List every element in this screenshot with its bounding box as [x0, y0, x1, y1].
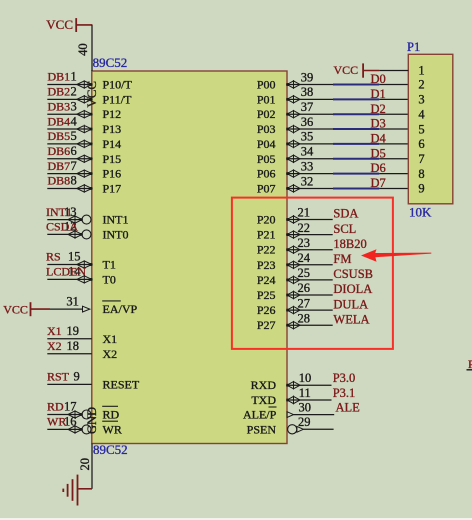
svg-text:P: P: [468, 357, 472, 371]
pin name P20: [257, 213, 276, 227]
pin name P14: [103, 137, 122, 151]
partial net label at right edge: [467, 357, 472, 371]
pin name ALE/P with overline: [243, 407, 277, 422]
svg-text:26: 26: [298, 281, 311, 295]
connector pin number 5: [418, 122, 424, 136]
svg-text:P24: P24: [257, 273, 276, 287]
pin wire P25: [287, 294, 333, 296]
pin marker P14: [77, 140, 93, 147]
connector P1 body: [408, 54, 453, 204]
power port VCC (top): [46, 17, 92, 32]
ground symbol: [63, 475, 92, 506]
connector pin wire D7: [379, 187, 408, 189]
pin number 27: [298, 296, 311, 310]
svg-text:D7: D7: [371, 176, 386, 190]
pin name INT1: [103, 213, 129, 227]
pin name PSEN: [247, 422, 277, 436]
pin name RXD: [251, 378, 277, 392]
svg-text:P1: P1: [407, 40, 420, 54]
pin name P04: [257, 137, 276, 151]
net label SDA: [333, 207, 358, 221]
svg-text:22: 22: [298, 221, 311, 235]
wire net X2 to pin 18: [47, 353, 92, 355]
wire net X1 to pin 19: [47, 338, 92, 340]
pin wire P05: [287, 158, 333, 160]
svg-text:P22: P22: [257, 243, 276, 257]
svg-text:DB5: DB5: [48, 129, 71, 143]
pin number 29: [298, 415, 311, 429]
bottom screenshot border strip: [0, 518, 472, 520]
svg-text:X2: X2: [103, 347, 118, 361]
IC U1 89C52 body: [92, 71, 287, 444]
svg-text:24: 24: [298, 251, 311, 265]
svg-text:4: 4: [418, 107, 425, 121]
pin number 35: [301, 130, 314, 144]
svg-text:31: 31: [66, 295, 79, 309]
svg-text:29: 29: [298, 415, 311, 429]
net label DB6: [48, 144, 71, 158]
svg-text:X1: X1: [47, 324, 62, 338]
svg-text:P21: P21: [257, 228, 276, 242]
pin name P05: [257, 152, 276, 166]
svg-text:DIOLA: DIOLA: [333, 282, 372, 296]
svg-text:3: 3: [418, 93, 424, 107]
svg-text:10K: 10K: [409, 204, 432, 219]
pin number 28: [298, 311, 311, 325]
pin wire RXD: [287, 384, 332, 386]
net label CSDA: [46, 220, 78, 234]
svg-text:P3.0: P3.0: [333, 371, 356, 385]
net label RS: [46, 250, 61, 264]
svg-text:X1: X1: [103, 332, 118, 346]
svg-text:LCDEN: LCDEN: [46, 265, 86, 279]
pin number 38: [301, 85, 314, 99]
pin wire P02: [287, 113, 333, 115]
pin number 10: [299, 371, 312, 385]
svg-text:18B20: 18B20: [333, 237, 366, 251]
wire net DB7 to pin 7: [47, 173, 92, 175]
svg-text:D2: D2: [371, 102, 386, 116]
pin marker WR with bubble: [68, 425, 91, 434]
svg-text:ALE: ALE: [336, 401, 361, 415]
svg-text:6: 6: [71, 144, 77, 158]
net label DB2: [48, 85, 71, 99]
wire net RS to pin 15: [47, 264, 92, 266]
net label D7: [371, 176, 386, 190]
pin marker P10/T: [77, 81, 93, 88]
pin name P16: [103, 167, 122, 181]
svg-text:DB8: DB8: [48, 174, 71, 188]
svg-text:P14: P14: [103, 137, 122, 151]
pin marker P03: [286, 125, 300, 132]
pin marker P07: [286, 185, 300, 192]
pin number 31: [66, 295, 79, 309]
pin number 3: [71, 99, 77, 113]
connector pin number 2: [418, 78, 424, 92]
svg-text:VCC: VCC: [334, 63, 359, 77]
pin number 16: [64, 415, 77, 429]
net label D0: [371, 72, 386, 86]
pin marker P12: [77, 111, 93, 118]
svg-text:DB6: DB6: [48, 144, 71, 158]
svg-text:39: 39: [301, 70, 314, 84]
svg-text:28: 28: [298, 311, 311, 325]
svg-text:P10/T: P10/T: [103, 78, 133, 92]
net label GND (rotated): [85, 407, 99, 434]
svg-text:89C52: 89C52: [93, 442, 128, 457]
net label D1: [371, 87, 386, 101]
pin marker RXD: [286, 382, 300, 389]
wire net INT1 to pin 13: [47, 219, 82, 221]
pin wire ALE: [294, 414, 335, 416]
pin name RESET: [103, 377, 140, 391]
pin marker P24: [286, 276, 300, 283]
connector pin number 7: [418, 152, 424, 166]
svg-text:GND: GND: [85, 407, 99, 434]
wire pin 20 to ground: [91, 444, 93, 489]
pin marker INT1 with bubble: [68, 215, 91, 224]
highlight arrow pointing to FM: [361, 249, 431, 261]
pin marker P11/T: [77, 96, 93, 103]
pin marker P04: [286, 140, 300, 147]
connector pin wire D0: [379, 84, 408, 86]
pin name P22: [257, 243, 276, 257]
svg-text:P00: P00: [257, 78, 276, 92]
wire net DB3 to pin 3: [47, 113, 92, 115]
svg-text:T0: T0: [103, 272, 116, 286]
connector pin number 4: [418, 107, 425, 121]
svg-text:P13: P13: [103, 122, 122, 136]
wire net D0: [333, 84, 379, 86]
pin wire P07: [287, 187, 333, 189]
svg-text:DB2: DB2: [48, 85, 71, 99]
svg-text:RESET: RESET: [103, 377, 140, 391]
svg-text:21: 21: [298, 206, 311, 220]
svg-text:FM: FM: [333, 252, 351, 266]
svg-text:RXD: RXD: [251, 378, 277, 392]
svg-text:89C52: 89C52: [93, 55, 128, 70]
pin number 4: [71, 114, 78, 128]
designator P1: [407, 40, 420, 54]
net label DB7: [48, 159, 71, 173]
pin wire P21: [287, 234, 333, 236]
wire net D6: [333, 173, 379, 175]
pin name P25: [257, 288, 276, 302]
pin number 39: [301, 70, 314, 84]
pin name X2: [103, 347, 118, 361]
net label DB1: [48, 70, 71, 84]
pin number 36: [301, 115, 314, 129]
wire net D1: [333, 98, 379, 100]
svg-text:6: 6: [418, 137, 424, 151]
svg-text:20: 20: [78, 458, 92, 471]
net label P3.1: [333, 386, 356, 400]
net label RD: [47, 400, 64, 414]
svg-text:RST: RST: [47, 370, 70, 384]
pin marker P23: [286, 261, 300, 268]
pin number 34: [301, 145, 314, 159]
svg-text:D0: D0: [371, 72, 386, 86]
svg-text:10: 10: [299, 371, 312, 385]
pin number 18: [67, 339, 80, 353]
svg-text:TXD: TXD: [251, 393, 276, 407]
pin marker P06: [286, 170, 300, 177]
pin number 40 (rotated): [76, 43, 90, 56]
svg-text:P05: P05: [257, 152, 276, 166]
pin name P23: [257, 258, 276, 272]
svg-text:P03: P03: [257, 122, 276, 136]
designator 89C52 (bottom): [93, 442, 128, 457]
connector pin wire D1: [379, 98, 408, 100]
svg-text:7: 7: [71, 159, 77, 173]
svg-text:23: 23: [298, 236, 311, 250]
wire VCC to pin 40: [91, 25, 93, 71]
svg-text:34: 34: [301, 145, 314, 159]
svg-text:5: 5: [418, 122, 424, 136]
pin number 12: [64, 220, 77, 234]
connector pin number 9: [418, 182, 424, 196]
net label WELA: [333, 312, 369, 326]
pin wire P23: [287, 264, 333, 266]
net label LCDEN: [46, 265, 86, 279]
wire net D7: [333, 187, 379, 189]
svg-text:EA/VP: EA/VP: [103, 302, 138, 316]
wire net WR to pin 16: [47, 428, 82, 430]
pin marker RD with bubble: [68, 410, 91, 419]
pin name X1: [103, 332, 118, 346]
pin name RD with overline: [102, 406, 119, 421]
pin name P27: [257, 318, 276, 332]
pin name TXD: [251, 393, 276, 407]
pin number 23: [298, 236, 311, 250]
pin name P10/T: [103, 78, 133, 92]
pin wire P26: [287, 309, 333, 311]
pin marker TXD: [286, 396, 300, 403]
net label 18B20: [333, 237, 366, 251]
svg-text:9: 9: [74, 370, 80, 384]
svg-text:1: 1: [418, 64, 424, 78]
svg-text:36: 36: [301, 115, 314, 129]
net label D6: [371, 161, 386, 175]
svg-text:X2: X2: [47, 339, 62, 353]
pin name P07: [257, 181, 276, 195]
wire net DB4 to pin 4: [47, 128, 92, 130]
svg-text:P07: P07: [257, 181, 276, 195]
pin name P17: [103, 181, 122, 195]
wire net RD to pin 17: [47, 414, 82, 416]
pin wire P06: [287, 173, 333, 175]
connector pin wire D3: [379, 128, 408, 130]
pin wire P22: [287, 249, 333, 251]
pin name P11/T: [103, 92, 133, 106]
net label DIOLA: [333, 282, 372, 296]
pin marker P21: [286, 231, 300, 238]
pin name P12: [103, 107, 122, 121]
wire net D5: [333, 158, 379, 160]
pin number 1: [71, 70, 77, 84]
pin name P15: [103, 152, 122, 166]
pin marker P16: [77, 170, 93, 177]
net label P3.0: [333, 371, 356, 385]
pin number 11: [299, 386, 311, 400]
pin marker P27: [286, 322, 300, 329]
pin wire PSEN: [303, 428, 333, 430]
svg-text:WR: WR: [103, 422, 122, 436]
net label INT1: [46, 205, 72, 219]
wire net DB1 to pin 1: [47, 84, 92, 86]
svg-text:18: 18: [67, 339, 80, 353]
svg-text:8: 8: [418, 167, 424, 181]
pin number 20 (rotated): [78, 458, 92, 471]
svg-text:P15: P15: [103, 152, 122, 166]
svg-text:INT1: INT1: [103, 213, 129, 227]
pin marker EA/VP input triangle: [83, 306, 90, 312]
wire VCC to P1 pin 1: [379, 70, 408, 72]
svg-text:P06: P06: [257, 167, 276, 181]
svg-text:RS: RS: [46, 250, 61, 264]
svg-text:19: 19: [67, 324, 80, 338]
svg-text:1: 1: [71, 70, 77, 84]
svg-text:INT1: INT1: [46, 205, 72, 219]
svg-text:P26: P26: [257, 303, 276, 317]
pin name EA/VP with overline: [102, 301, 137, 316]
pin number 22: [298, 221, 311, 235]
pin wire P00: [287, 84, 333, 86]
net label ALE: [336, 401, 361, 415]
svg-text:SDA: SDA: [333, 207, 358, 221]
svg-text:P12: P12: [103, 107, 122, 121]
pin number 14: [68, 265, 81, 279]
svg-text:PSEN: PSEN: [247, 422, 277, 436]
power port VCC (P1 pin 1): [334, 63, 380, 78]
svg-text:8: 8: [71, 174, 77, 188]
pin marker P22: [286, 246, 300, 253]
svg-text:25: 25: [298, 266, 311, 280]
pin number 24: [298, 251, 311, 265]
pin number 26: [298, 281, 311, 295]
highlight box (red): [232, 198, 393, 349]
pin name T1: [103, 258, 116, 272]
svg-text:D4: D4: [371, 132, 387, 146]
svg-text:DB7: DB7: [48, 159, 71, 173]
pin wire P20: [287, 219, 333, 221]
svg-text:35: 35: [301, 130, 314, 144]
svg-text:D3: D3: [371, 117, 386, 131]
pin number 33: [301, 159, 314, 173]
pin name P00: [257, 78, 276, 92]
pin number 25: [298, 266, 311, 280]
net label X2: [47, 339, 62, 353]
pin marker INT0 with bubble: [68, 230, 91, 239]
net label DULA: [333, 297, 368, 311]
pin number 17: [64, 400, 77, 414]
wire net D3: [333, 128, 379, 130]
svg-text:DB1: DB1: [48, 70, 71, 84]
svg-text:P02: P02: [257, 107, 276, 121]
wire net CSDA to pin 12: [47, 233, 82, 235]
svg-text:P17: P17: [103, 181, 122, 195]
svg-text:D6: D6: [371, 161, 386, 175]
svg-text:2: 2: [71, 85, 77, 99]
pin marker P15: [77, 155, 93, 162]
pin marker P17: [77, 185, 93, 192]
wire net D2: [333, 113, 379, 115]
wire net DB2 to pin 2: [47, 98, 92, 100]
pin marker T1: [77, 261, 93, 268]
svg-text:2: 2: [418, 78, 424, 92]
svg-text:RD: RD: [103, 408, 120, 422]
svg-text:P25: P25: [257, 288, 276, 302]
pin marker PSEN bubble and triangle: [288, 425, 304, 434]
net label DB4: [48, 114, 71, 128]
pin marker P13: [77, 125, 93, 132]
pin number 6: [71, 144, 77, 158]
svg-text:P20: P20: [257, 213, 276, 227]
net label DB3: [48, 99, 71, 113]
pin marker P20: [286, 216, 300, 223]
svg-text:DB4: DB4: [48, 114, 71, 128]
svg-text:38: 38: [301, 85, 314, 99]
svg-text:7: 7: [418, 152, 424, 166]
pin number 7: [71, 159, 77, 173]
power port VCC (EA/VP): [3, 302, 50, 316]
svg-text:T1: T1: [103, 258, 116, 272]
pin number 19: [67, 324, 80, 338]
pin marker ALE output triangle: [287, 412, 294, 418]
net label D4: [371, 132, 387, 146]
wire VCC to pin 31: [50, 308, 83, 310]
svg-text:P16: P16: [103, 167, 122, 181]
connector pin wire D5: [379, 158, 408, 160]
pin number 32: [301, 174, 314, 188]
svg-text:27: 27: [298, 296, 311, 310]
net label FM: [333, 252, 351, 266]
svg-text:RD: RD: [47, 400, 64, 414]
wire net D4: [333, 143, 379, 145]
svg-text:11: 11: [299, 386, 311, 400]
svg-text:D1: D1: [371, 87, 386, 101]
wire net DB8 to pin 8: [47, 187, 92, 189]
pin name P03: [257, 122, 276, 136]
net label D3: [371, 117, 386, 131]
svg-text:30: 30: [299, 400, 312, 414]
designator 89C52 (top): [93, 55, 128, 70]
pin number 8: [71, 174, 77, 188]
svg-text:33: 33: [301, 159, 314, 173]
connector pin wire D6: [379, 173, 408, 175]
net label X1: [47, 324, 62, 338]
svg-text:INT0: INT0: [103, 227, 129, 241]
pin marker P26: [286, 307, 300, 314]
pin wire P04: [287, 143, 333, 145]
svg-text:VCC: VCC: [84, 81, 99, 108]
connector pin number 1: [418, 64, 424, 78]
pin number 2: [71, 85, 77, 99]
svg-text:3: 3: [71, 99, 77, 113]
net label RST: [47, 370, 70, 384]
pin marker T0: [77, 276, 93, 283]
svg-text:CSUSB: CSUSB: [333, 267, 373, 281]
pin wire P27: [287, 324, 333, 326]
svg-text:4: 4: [71, 114, 78, 128]
pin marker P02: [286, 111, 300, 118]
svg-text:DULA: DULA: [333, 297, 368, 311]
pin number 9: [74, 370, 80, 384]
pin number 13: [64, 205, 77, 219]
net label CSUSB: [333, 267, 373, 281]
pin number 37: [301, 100, 314, 114]
pin name P01: [257, 92, 276, 106]
